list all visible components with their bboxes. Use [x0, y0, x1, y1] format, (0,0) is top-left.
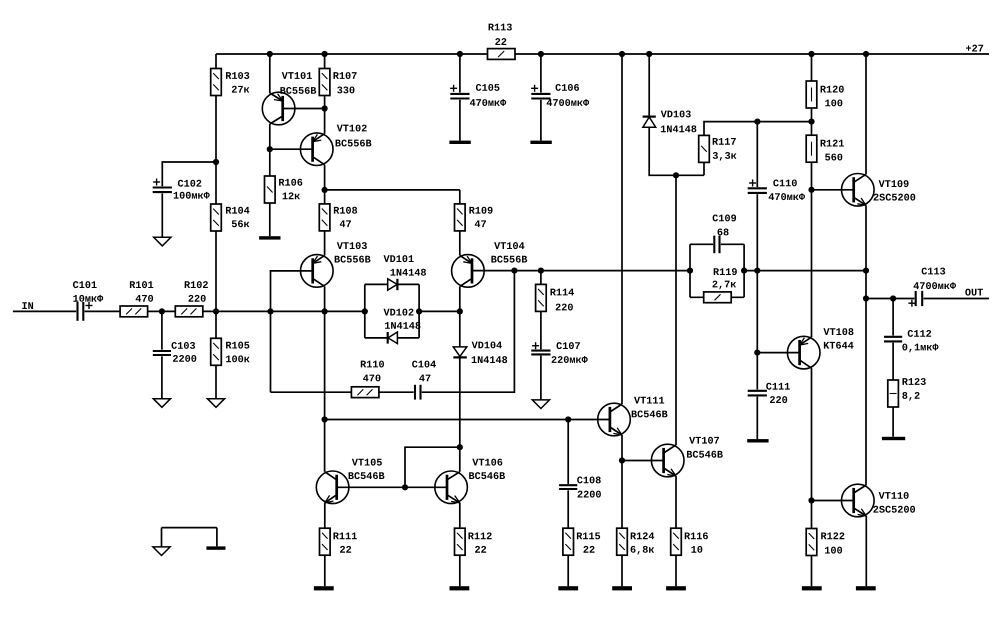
wire R124 branch [621, 461, 623, 587]
ground R105 [207, 399, 224, 408]
wire R107 branch [324, 54, 326, 134]
wire feedback line left [472, 270, 690, 272]
node C110 bottom [754, 268, 760, 274]
node VT109 base [808, 187, 814, 193]
capacitor C109 [713, 235, 721, 253]
ground C106 [530, 141, 551, 144]
node C109/R119 left [687, 268, 693, 274]
node feedback/output [863, 268, 869, 274]
resistor R106 [265, 176, 276, 203]
wire C112-R123 branch [892, 299, 894, 437]
node VT105 collector [322, 416, 328, 422]
ground C111 [747, 439, 768, 442]
node R105 tap [213, 308, 219, 314]
wire VT105 emitter to R111 [324, 503, 326, 587]
resistor R107 [319, 69, 330, 96]
wire R114-C107 branch [540, 271, 542, 400]
node VT105/VT106 base [402, 484, 408, 490]
node VT104 collector [457, 308, 463, 314]
wire VT106 base-collector tie [405, 447, 460, 487]
resistor R121 [806, 135, 817, 162]
node OUT [863, 295, 869, 301]
wire VT107 emitter to R116 [675, 476, 677, 586]
resistor R114 [536, 284, 547, 311]
node lag network tap [511, 268, 517, 274]
node VT108 base [754, 350, 760, 356]
resistor R112 [455, 528, 466, 555]
ground R122 [802, 586, 822, 590]
node IN label [22, 302, 27, 309]
wire feedback line right [744, 270, 866, 272]
node C108 tap [565, 416, 571, 422]
wire R108-R109 top line [325, 189, 460, 191]
wire C103 branch [161, 311, 163, 398]
resistor R120 [806, 81, 817, 108]
wire R108 to VT103 emitter [324, 190, 326, 256]
ground R116 [666, 586, 686, 590]
wire VT111 collector to rail [621, 54, 623, 404]
resistor R104 [211, 204, 222, 231]
wire VT110 base [812, 500, 854, 502]
wire VT111 base line [325, 419, 610, 421]
resistor R111 [320, 528, 331, 555]
resistor R123 [888, 380, 899, 407]
capacitor C106 [531, 93, 551, 100]
node VT102 collector [322, 187, 328, 193]
wire VT105-VT106 base line [337, 486, 447, 488]
wire +27 supply rail [216, 53, 989, 55]
transistor VT110 [842, 484, 875, 517]
capacitor C108 [559, 484, 578, 490]
wire VT101 emitter to rail [269, 54, 271, 93]
resistor R109 [455, 204, 466, 231]
node VD103/R117 [673, 172, 679, 178]
wire VT109 base [812, 189, 854, 191]
node C109/R119 right [741, 268, 747, 274]
wire VT110 emitter to ground [865, 516, 867, 586]
node bracket left [362, 308, 368, 314]
wire VT108 base [757, 352, 799, 354]
resistor R101 [120, 306, 148, 317]
capacitor C111 [747, 390, 767, 397]
node C112 tap [890, 295, 896, 301]
resistor R102 [175, 306, 203, 317]
ground tie bar [206, 546, 225, 549]
wire VT106 emitter to R112 [459, 503, 461, 587]
capacitor C101 [76, 302, 84, 322]
capacitor C110 [747, 187, 767, 194]
wire R109 to VT104 emitter [459, 190, 461, 256]
wire VT103 base loop [271, 271, 313, 392]
ground C107 [532, 400, 549, 409]
wire R105 branch [215, 311, 217, 398]
wire bracket to VT104 collector [419, 310, 460, 312]
resistor R113 [488, 49, 516, 60]
node VT106 collector tie [457, 444, 463, 450]
wire VT109 collector to rail [865, 54, 867, 174]
capacitor C104 [414, 384, 422, 400]
capacitor C105 [450, 93, 470, 100]
resistor R115 [563, 528, 574, 555]
ground C102 [154, 237, 171, 246]
wire C110-C111 branch [756, 122, 758, 440]
ground R106 [259, 236, 280, 239]
node VT101 base [322, 105, 328, 111]
wire C108-R115 branch [567, 420, 569, 587]
resistor R116 [671, 528, 682, 555]
node OUT label [965, 289, 970, 296]
capacitor C102 [152, 186, 172, 193]
node R104/C102 [213, 159, 219, 165]
wire C105 branch [459, 54, 461, 141]
node R114 tap [538, 268, 544, 274]
resistor R117 [699, 135, 710, 162]
wire VT107 collector [675, 175, 677, 445]
diode VD104 [453, 347, 467, 357]
capacitor C113 [914, 291, 923, 307]
resistor R103 [211, 69, 222, 96]
wire output node vertical [865, 205, 867, 485]
wire VD103 branch [649, 54, 704, 175]
wire R117 branch [704, 122, 812, 176]
ground R123 [882, 437, 905, 440]
transistor VT109 [842, 174, 875, 207]
ground tie triangle [153, 547, 170, 556]
capacitor C112 [884, 336, 903, 343]
wire VT103 collector chain [324, 286, 326, 471]
wire VT107 base line [622, 460, 664, 462]
resistor R119 [704, 292, 732, 303]
transistor VT108 [787, 336, 820, 369]
ground VT110 emitter [856, 586, 876, 590]
transistor VT105 [316, 471, 349, 504]
wire VT101 collector to R106 [269, 124, 271, 236]
ground R124 [612, 586, 632, 590]
transistor VT107 [651, 444, 684, 477]
resistor R122 [806, 529, 817, 556]
wire C109 loop [690, 244, 744, 297]
node VT111 emitter [619, 457, 625, 463]
ground C105 [449, 141, 470, 144]
wire ground tie bracket [162, 528, 217, 547]
wire R103-R104 branch [215, 54, 217, 311]
node R117/C110 top [754, 119, 760, 125]
capacitor C107 [531, 349, 551, 355]
node C103 tap [159, 308, 165, 314]
node +27 label [966, 46, 971, 51]
transistor VT106 [435, 471, 468, 504]
wire VT111 emitter [621, 435, 623, 461]
transistor VT102 [300, 133, 333, 166]
node VT110 base [808, 497, 814, 503]
wire VT108 collector to R122 [811, 368, 813, 586]
transistor VT103 [301, 255, 334, 288]
junctions on +27 rail [267, 51, 273, 57]
transistor VT111 [598, 403, 631, 436]
transistor VT104 [452, 255, 485, 288]
diode VD101 [388, 279, 398, 290]
node bracket right [416, 308, 422, 314]
resistor R108 [319, 204, 330, 231]
wire R120-R121 branch [811, 54, 813, 190]
wire C106 branch [540, 54, 542, 141]
ground C103 [153, 399, 170, 408]
capacitor C103 [152, 350, 171, 357]
node R120/R121 [808, 119, 814, 125]
wire C102 branch [162, 162, 216, 237]
wire R110-C104 lag line [271, 271, 515, 393]
node VT103 base [267, 308, 273, 314]
ground R111 [314, 586, 334, 590]
wire VT104 collector / VD104 chain [459, 286, 461, 471]
wire OUT line [866, 298, 989, 300]
wire VT108 emitter riser [811, 190, 813, 337]
diode VD102 [388, 332, 397, 344]
transistor VT101 [262, 92, 295, 125]
ground R115 [558, 586, 578, 590]
node VT103 collector [322, 308, 328, 314]
resistor R105 [211, 338, 222, 365]
resistor R124 [617, 528, 628, 555]
resistor R110 [351, 387, 379, 398]
wire IN line [13, 310, 365, 312]
wire VT102 base [270, 148, 313, 150]
diode VD103 [643, 117, 656, 127]
wire VT102 collector [324, 165, 326, 190]
node bracket VD101-VD102 [365, 284, 419, 338]
node VT101 collector [267, 146, 273, 152]
wire VT101 base to R107 [283, 108, 325, 110]
ground R112 [450, 586, 470, 590]
